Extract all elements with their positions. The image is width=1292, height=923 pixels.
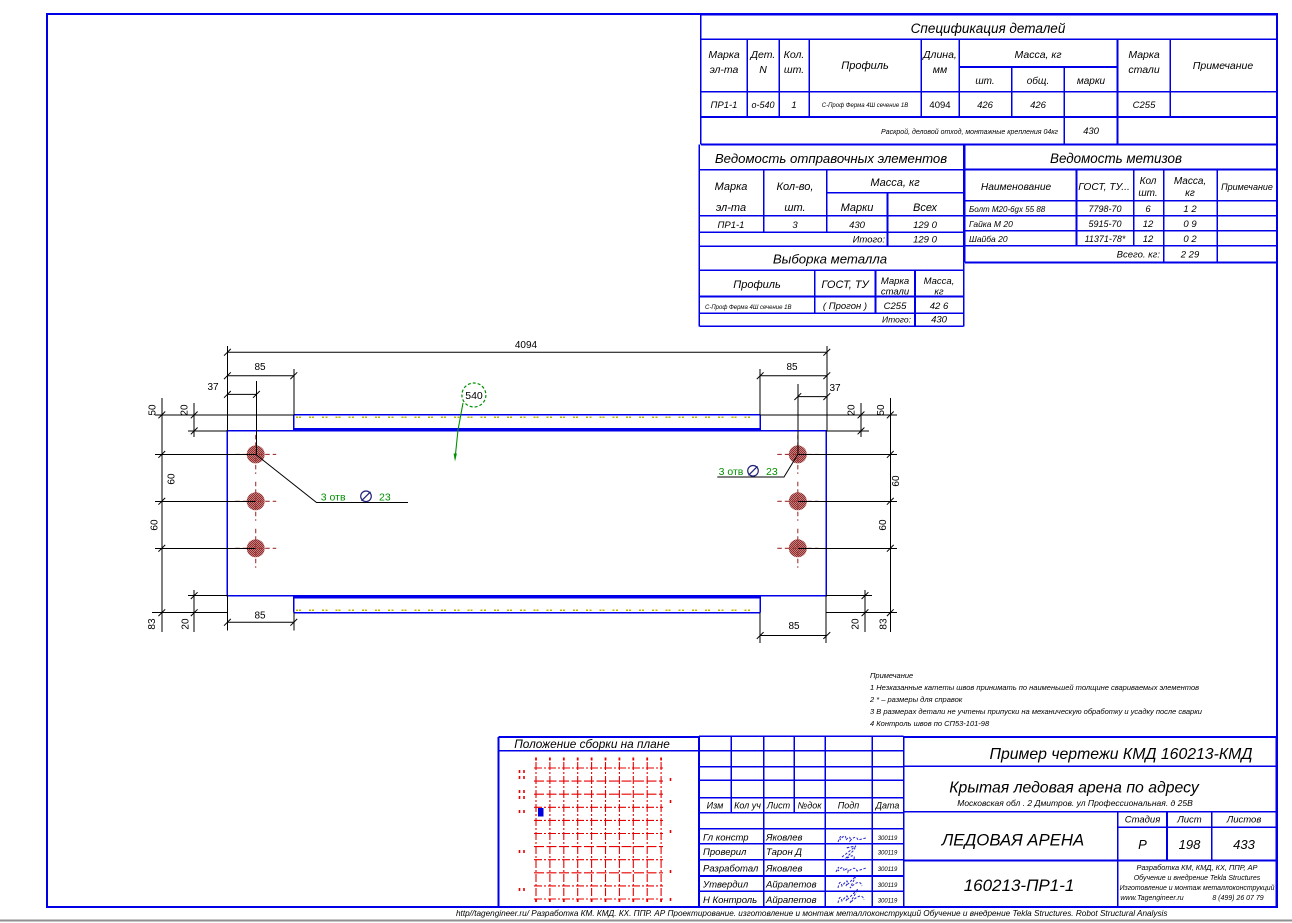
footer separator gray line	[0, 919, 1292, 921]
svg-text:Разработал: Разработал	[703, 863, 759, 874]
bottom flange near edge (thick)	[294, 595, 760, 598]
table: Vyborka metalla	[699, 269, 963, 271]
svg-text:Яковлев: Яковлев	[765, 863, 803, 874]
dimension line 4094	[227, 351, 826, 353]
svg-text:4094: 4094	[929, 100, 950, 111]
assembly mark balloon 540	[462, 383, 486, 407]
svg-text:Масса, кг: Масса, кг	[870, 177, 920, 189]
svg-text:433: 433	[1233, 837, 1255, 852]
hole centerline cross left 3	[255, 529, 257, 568]
svg-text:Наименование: Наименование	[981, 182, 1052, 193]
svg-text:С255: С255	[884, 301, 907, 312]
svg-text:60: 60	[167, 473, 178, 485]
svg-text:Шайба 20: Шайба 20	[969, 234, 1008, 244]
table: Vedomost otpravochnykh elementov	[699, 169, 963, 171]
svg-text:60: 60	[891, 475, 902, 487]
svg-text:129 0: 129 0	[913, 235, 937, 246]
svg-text:ПР1-1: ПР1-1	[711, 100, 738, 111]
svg-text:Листов: Листов	[1226, 815, 1262, 826]
svg-text:Марки: Марки	[841, 202, 874, 214]
svg-text:Кол-во,: Кол-во,	[777, 181, 814, 193]
svg-text:С-Проф Ферма 4Ш сечение 1В: С-Проф Ферма 4Ш сечение 1В	[705, 305, 791, 311]
svg-text:ГОСТ, ТУ: ГОСТ, ТУ	[821, 279, 869, 291]
table: Vedomost metizov	[965, 169, 1277, 171]
svg-text:3 В размерах детали не учтены: 3 В размерах детали не учтены припуски н…	[870, 707, 1203, 716]
svg-text:шт.: шт.	[784, 64, 804, 76]
svg-text:Разработка КМ, КМД, КХ, ППР, А: Разработка КМ, КМД, КХ, ППР, АР	[1137, 863, 1258, 872]
svg-text:Р: Р	[1138, 837, 1147, 852]
svg-text:430: 430	[1083, 126, 1100, 137]
svg-text:С255: С255	[1133, 100, 1156, 111]
svg-text:Яковлев: Яковлев	[765, 832, 803, 843]
svg-text:Масса,: Масса,	[1174, 176, 1206, 187]
svg-text:300119: 300119	[878, 898, 898, 904]
bottom flange hidden edge (yellow dashed)	[296, 609, 758, 611]
svg-text:160213-ПР1-1: 160213-ПР1-1	[964, 876, 1075, 895]
svg-text:20: 20	[851, 618, 862, 630]
svg-text:Лист: Лист	[1176, 815, 1202, 826]
dimension line 85 top-right	[760, 375, 827, 377]
svg-text:N: N	[759, 64, 767, 76]
title block right section	[904, 736, 1277, 738]
bolt hole d23 left row 3	[247, 539, 265, 557]
svg-text:( Прогон ): ( Прогон )	[823, 301, 867, 312]
svg-text:2 * – размеры для справок: 2 * – размеры для справок	[869, 695, 963, 704]
extension verticals bottom	[226, 596, 228, 631]
svg-text:Итого:: Итого:	[853, 235, 886, 246]
svg-text:Кол.: Кол.	[784, 49, 805, 61]
svg-text:кг: кг	[934, 287, 943, 298]
svg-text:5915-70: 5915-70	[1088, 219, 1121, 229]
svg-text:4 Контроль швов по СП53-101-9: 4 Контроль швов по СП53-101-98	[870, 719, 990, 728]
svg-text:Примечание: Примечание	[870, 671, 913, 680]
assembly position plan: red grid	[520, 758, 671, 903]
svg-text:о-540: о-540	[751, 100, 774, 110]
svg-text:50: 50	[876, 404, 887, 416]
svg-text:37: 37	[829, 383, 841, 394]
svg-text:Масса,: Масса,	[924, 276, 955, 287]
top flange near edge (thick)	[294, 428, 760, 431]
beam web outline (assembly PR1-1)	[227, 431, 826, 596]
svg-text:Лист: Лист	[766, 801, 791, 811]
svg-text:20: 20	[181, 618, 192, 630]
svg-text:0 9: 0 9	[1183, 219, 1197, 230]
dimension line 85 top-left	[227, 375, 293, 377]
svg-text:129 0: 129 0	[913, 220, 937, 231]
bolt hole d23 left row 2	[247, 492, 265, 510]
hole centerline cross left 1	[255, 435, 257, 474]
svg-text:23: 23	[379, 492, 391, 504]
svg-text:Итого:: Итого:	[882, 315, 912, 325]
svg-text:№док: №док	[798, 801, 823, 811]
svg-text:Тарон Д: Тарон Д	[766, 847, 802, 858]
svg-text:Раскрой, деловой отход, монтаж: Раскрой, деловой отход, монтажные крепле…	[881, 128, 1058, 136]
svg-text:1: 1	[791, 100, 796, 111]
svg-text:23: 23	[766, 466, 778, 478]
svg-text:общ.: общ.	[1027, 75, 1049, 87]
svg-text:6: 6	[1145, 204, 1151, 215]
svg-text:Изготовление и монтаж металлок: Изготовление и монтаж металлоконструкций	[1120, 884, 1275, 892]
svg-text:8 (499) 26 07 79: 8 (499) 26 07 79	[1212, 895, 1263, 902]
svg-text:С-Проф Ферма 4Ш сечение 1В: С-Проф Ферма 4Ш сечение 1В	[822, 103, 908, 109]
bottom flange step right	[759, 596, 761, 613]
svg-text:50: 50	[148, 404, 159, 416]
svg-text:60: 60	[150, 519, 161, 531]
vertical dimension chain left outer	[161, 398, 163, 632]
svg-text:ГОСТ, ТУ...: ГОСТ, ТУ...	[1078, 182, 1130, 193]
svg-text:www.Tagengineer.ru: www.Tagengineer.ru	[1120, 895, 1183, 902]
svg-text:7798-70: 7798-70	[1088, 204, 1121, 214]
hole centerline cross right 2	[797, 482, 799, 521]
svg-text:1 2: 1 2	[1183, 204, 1197, 215]
svg-text:Кол: Кол	[1140, 176, 1157, 187]
top flange step left	[293, 415, 295, 431]
balloon leader arrow	[455, 403, 463, 459]
bottom flange far edge (thin)	[294, 612, 760, 614]
svg-text:60: 60	[878, 519, 889, 531]
svg-text:3 отв: 3 отв	[719, 466, 744, 478]
svg-text:марки: марки	[1077, 76, 1106, 87]
svg-text:20: 20	[847, 404, 858, 416]
svg-text:шт.: шт.	[1138, 188, 1157, 199]
svg-text:эл-та: эл-та	[716, 202, 746, 214]
svg-text:Обучение и внедрение Tekla St: Обучение и внедрение Tekla Structures	[1134, 874, 1261, 882]
svg-text:Всего. кг:: Всего. кг:	[1117, 250, 1161, 261]
svg-text:Длина,: Длина,	[922, 49, 957, 61]
svg-text:540: 540	[465, 390, 483, 402]
svg-text:Всех: Всех	[913, 202, 937, 214]
svg-text:Положение сборки на плане: Положение сборки на плане	[514, 737, 670, 751]
svg-text:ПР1-1: ПР1-1	[718, 220, 745, 231]
svg-text:Дата: Дата	[875, 801, 900, 811]
extension lines left side	[155, 414, 294, 416]
svg-text:Гайка М 20: Гайка М 20	[969, 219, 1013, 229]
dimension line 85 bottom-left	[227, 621, 293, 623]
title block: Polozhenie sborki na plane box	[499, 736, 700, 738]
hole label right: 3 otv d23	[717, 454, 798, 477]
svg-text:Крытая ледовая арена по адресу: Крытая ледовая арена по адресу	[949, 780, 1200, 797]
vertical dimension chain right outer	[889, 398, 891, 632]
svg-text:12: 12	[1143, 234, 1154, 245]
svg-text:Марка: Марка	[715, 181, 748, 193]
svg-text:Подп: Подп	[838, 801, 860, 811]
extension lines right side	[760, 414, 897, 416]
dimension line 37 left	[227, 393, 256, 395]
vertical dimension chain left inner (20s)	[193, 403, 195, 437]
bottom flange step left	[293, 596, 295, 613]
svg-text:430: 430	[849, 220, 866, 231]
svg-text:Кол уч: Кол уч	[734, 801, 761, 811]
svg-text:2 29: 2 29	[1180, 250, 1200, 261]
bolt hole d23 left row 1	[247, 445, 265, 463]
svg-text:83: 83	[879, 618, 890, 630]
svg-text:20: 20	[180, 404, 191, 416]
svg-text:Московская обл . 2 Дмитров. у: Московская обл . 2 Дмитров. ул Профессио…	[957, 798, 1193, 808]
svg-text:эл-та: эл-та	[710, 64, 739, 76]
svg-text:300119: 300119	[878, 836, 898, 842]
svg-text:Выборка металла: Выборка металла	[773, 252, 887, 267]
bolt hole d23 right row 2	[789, 492, 807, 510]
svg-text:Примечание: Примечание	[1221, 182, 1273, 192]
vertical dimension chain right inner (20s)	[860, 403, 862, 437]
svg-text:Профиль: Профиль	[733, 279, 781, 291]
svg-text:Айрапетов: Айрапетов	[765, 895, 817, 906]
extension verticals top	[226, 346, 228, 431]
svg-text:Спецификация деталей: Спецификация деталей	[911, 21, 1066, 36]
svg-text:Марка: Марка	[881, 276, 909, 287]
top flange hidden edge (yellow dashed)	[296, 416, 758, 418]
svg-text:1 Незказанные катеты швов при: 1 Незказанные катеты швов принимать по н…	[870, 683, 1199, 692]
svg-text:Пример чертежи КМД 160213-КМД: Пример чертежи КМД 160213-КМД	[990, 746, 1253, 763]
hole centerline cross right 3	[797, 529, 799, 568]
svg-text:кг: кг	[1185, 188, 1195, 199]
svg-text:Изм: Изм	[707, 801, 724, 811]
dimension line 85 bottom-right	[760, 635, 827, 637]
svg-text:11371-78*: 11371-78*	[1085, 234, 1126, 244]
bolt hole d23 right row 3	[789, 539, 807, 557]
svg-text:ЛЕДОВАЯ АРЕНА: ЛЕДОВАЯ АРЕНА	[941, 831, 1084, 850]
svg-text:http//tagengineer.ru/ Разраб: http//tagengineer.ru/ Разработка КМ. КМД…	[456, 909, 1167, 918]
svg-text:85: 85	[788, 621, 800, 632]
svg-text:Проверил: Проверил	[703, 847, 747, 858]
dimension line 37 right	[798, 396, 827, 398]
svg-text:Марка: Марка	[708, 49, 740, 61]
svg-text:Н Контроль: Н Контроль	[703, 895, 757, 906]
svg-text:Ведомость метизов: Ведомость метизов	[1050, 151, 1182, 166]
top flange step right	[759, 415, 761, 431]
svg-text:Дет.: Дет.	[750, 49, 776, 61]
svg-text:300119: 300119	[878, 867, 898, 873]
svg-text:стали: стали	[1128, 64, 1160, 76]
svg-text:Профиль: Профиль	[841, 60, 889, 72]
svg-text:3 отв: 3 отв	[321, 492, 346, 504]
svg-text:Марка: Марка	[1128, 49, 1160, 61]
svg-text:Болт М20-6gх 55 88: Болт М20-6gх 55 88	[969, 205, 1046, 214]
hole centerline cross left 2	[255, 482, 257, 521]
svg-text:4094: 4094	[515, 340, 538, 351]
table: Spetsifikatsiya detaley	[701, 14, 1277, 16]
svg-text:42 6: 42 6	[930, 301, 949, 312]
svg-text:Айрапетов: Айрапетов	[765, 880, 817, 891]
svg-text:Масса, кг: Масса, кг	[1014, 49, 1061, 61]
svg-text:426: 426	[977, 100, 994, 111]
svg-text:мм: мм	[933, 64, 947, 76]
svg-text:12: 12	[1143, 219, 1154, 230]
svg-text:шт.: шт.	[975, 76, 994, 87]
svg-text:Гл констр: Гл констр	[703, 832, 749, 843]
svg-text:Примечание: Примечание	[1193, 60, 1254, 72]
svg-text:300119: 300119	[878, 883, 898, 889]
svg-text:Утвердил: Утвердил	[702, 880, 749, 891]
blue position marker on plan	[538, 808, 544, 817]
svg-text:Ведомость отправочных элементо: Ведомость отправочных элементов	[715, 151, 947, 166]
svg-text:стали: стали	[881, 287, 910, 298]
svg-text:Стадия: Стадия	[1125, 815, 1161, 826]
svg-text:37: 37	[207, 382, 219, 393]
top flange far edge (thin)	[294, 414, 760, 416]
hole centerline cross right 1	[797, 435, 799, 474]
svg-text:300119: 300119	[878, 851, 898, 857]
title block: revision/signature grid	[699, 735, 904, 737]
svg-text:3: 3	[792, 220, 798, 231]
hole label left: 3 otv d23	[256, 454, 408, 502]
svg-text:83: 83	[147, 618, 158, 630]
svg-text:198: 198	[1179, 837, 1201, 852]
blue signatures scribbles	[836, 836, 866, 903]
svg-text:430: 430	[931, 315, 948, 326]
svg-text:85: 85	[786, 362, 798, 373]
svg-text:426: 426	[1030, 100, 1047, 111]
bolt hole d23 right row 1	[789, 445, 807, 463]
svg-text:85: 85	[254, 362, 266, 373]
svg-text:85: 85	[254, 611, 266, 622]
svg-text:шт.: шт.	[784, 202, 805, 214]
svg-text:0 2: 0 2	[1183, 234, 1197, 245]
